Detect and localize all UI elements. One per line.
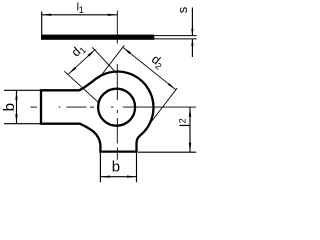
dimension l1: dimension line xyxy=(42,14,118,16)
washer side view: thick section xyxy=(41,35,154,40)
svg-text:2: 2 xyxy=(177,118,187,123)
dimension d1: extension line lower-left xyxy=(64,71,98,103)
dimension l2: up arrow xyxy=(189,107,191,117)
dimension b (bottom tab): dimension line xyxy=(100,176,136,178)
dimension b (bottom tab): left arrow xyxy=(100,176,110,178)
dimension b (left tab): up arrow xyxy=(15,90,17,100)
dimension l2: dimension line xyxy=(189,107,191,152)
dimension b (left tab): extension line bottom xyxy=(4,123,41,125)
dimension d2: extension line lower-right (tangent) xyxy=(149,88,177,124)
dimension l2: bottom extension line xyxy=(138,151,196,153)
dimension b (bottom tab): extension line left xyxy=(99,152,101,183)
vertical centerline xyxy=(116,11,118,44)
dimension b (left tab): dimension line xyxy=(16,90,18,123)
horizontal centerline xyxy=(31,106,38,108)
dimension s: upper line + down arrow xyxy=(191,8,193,36)
dimension d2: extension line upper-left (tangent) xyxy=(99,45,125,78)
washer side view: thin sheet line bottom xyxy=(154,38,197,40)
dimension l1: extension line left xyxy=(41,12,43,35)
dimension d2: lower-right arrow xyxy=(168,83,176,90)
dimension l1: right arrow xyxy=(108,14,118,16)
dimension b (bottom tab): extension line right xyxy=(136,152,138,183)
dimension d1: lower-left arrow xyxy=(68,67,76,74)
dimension s: lower line + up arrow xyxy=(191,39,193,46)
dimension b (bottom tab): right arrow xyxy=(127,176,137,178)
hole circle xyxy=(98,89,135,126)
washer side view: thin sheet line top (thickness s) xyxy=(154,35,197,37)
washer front view: outer outline with two tabs xyxy=(41,72,154,152)
svg-text:1: 1 xyxy=(79,5,84,15)
dimension d1: extension line upper-right xyxy=(92,47,116,73)
dimension d2: upper-left arrow xyxy=(123,47,131,54)
svg-text:b: b xyxy=(1,103,18,111)
dimension b (left tab): down arrow xyxy=(15,114,17,124)
dimension d1: dimension line xyxy=(68,49,95,74)
dimension l1: left arrow xyxy=(42,14,52,16)
dimension d2: dimension line xyxy=(123,47,176,90)
dimension l2: down arrow xyxy=(189,143,191,153)
dimension d1: upper-right arrow xyxy=(88,49,96,56)
svg-text:s: s xyxy=(175,6,190,13)
svg-text:b: b xyxy=(112,159,120,176)
dimension b (left tab): extension line top xyxy=(4,89,41,91)
